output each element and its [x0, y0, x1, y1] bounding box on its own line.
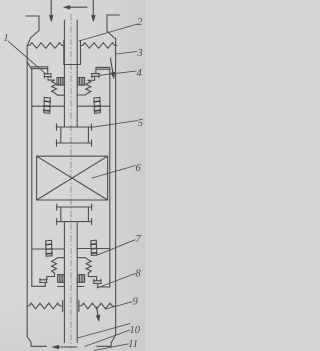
- upper-left link to pipe: [58, 94, 65, 96]
- lower-right link: [88, 273, 96, 280]
- upper-left slip pad: [44, 97, 51, 113]
- lower-left link: [47, 273, 55, 280]
- top hook left: [26, 16, 39, 45]
- lower-left link to pipe: [58, 257, 65, 259]
- lower-left pad on pipe: [58, 275, 65, 283]
- packer element box 6: [37, 156, 108, 200]
- bottom edge right: [97, 345, 111, 347]
- upper-right spring plates: [91, 74, 99, 78]
- upper-left spring plates: [44, 74, 51, 78]
- flow arrow right annulus pointing down: [110, 58, 114, 79]
- cylinder body lower: [61, 207, 89, 222]
- upper-right arm to pipe: [77, 105, 110, 107]
- top hook right: [107, 15, 119, 38]
- upper-left latch arm: [31, 67, 47, 74]
- central pipe wall left lower: [63, 222, 65, 343]
- lower-right latch spring: [85, 258, 91, 274]
- svg-text:7: 7: [136, 234, 142, 245]
- bottom spring left: [27, 303, 62, 309]
- pipe flange bottom right: [77, 286, 84, 288]
- upper-right pad on pipe: [78, 78, 85, 86]
- lower-left latch spring: [52, 258, 58, 274]
- packer cross diagonals: [37, 156, 108, 200]
- piston plate lower top: [56, 204, 92, 210]
- upper-left link: [48, 77, 55, 81]
- central pipe wall right lower: [76, 222, 78, 343]
- top suspension spring right: [81, 43, 117, 49]
- lower-right pad on pipe: [78, 275, 85, 283]
- leader 11: [94, 344, 129, 351]
- lower-right spring plates: [93, 279, 101, 283]
- sleeve wall right top: [80, 51, 82, 65]
- lower-left slip pad: [46, 240, 53, 256]
- piston plate lower bottom: [56, 219, 92, 225]
- svg-text:5: 5: [138, 118, 143, 129]
- flow arrow lower right annulus pointing down: [96, 307, 100, 321]
- bottom spring right: [79, 303, 114, 309]
- upper-right latch arm: [96, 67, 110, 73]
- svg-text:1: 1: [3, 33, 8, 44]
- lower-left spring plates: [40, 278, 48, 282]
- cylinder body 5: [61, 127, 89, 143]
- inner casing wall left: [31, 70, 33, 287]
- lower-right arm to pipe: [77, 248, 110, 250]
- bottom spring left end plate: [62, 301, 64, 312]
- lower-right latch arm: [98, 284, 110, 288]
- leader 9: [106, 302, 132, 309]
- leader 4: [100, 71, 137, 75]
- flow arrow top-right pointing down: [91, 0, 95, 22]
- pipe collar top: [64, 64, 81, 66]
- flow arrow top-left pointing down: [49, 0, 53, 22]
- svg-text:11: 11: [128, 339, 138, 350]
- leader 7: [97, 240, 135, 256]
- leader 2: [79, 24, 138, 41]
- svg-text:2: 2: [137, 17, 143, 28]
- svg-text:8: 8: [136, 268, 142, 279]
- flow arrow bottom pointing left: [52, 345, 77, 349]
- upper-left latch spring: [52, 80, 58, 95]
- bottom edge left: [31, 345, 47, 347]
- piston plate below cylinder: [56, 140, 92, 146]
- lower-left arm to pipe: [32, 248, 65, 250]
- svg-text:10: 10: [130, 325, 141, 336]
- pipe flange bottom left: [58, 286, 65, 288]
- lower-left latch arm: [32, 283, 46, 287]
- leader 1: [9, 42, 46, 74]
- outer casing wall right: [111, 38, 115, 346]
- central pipe wall left upper: [63, 20, 65, 127]
- central pipe wall right upper: [76, 20, 78, 127]
- flow arrow top-middle pointing left: [64, 5, 87, 9]
- upper-right link to pipe: [77, 94, 85, 96]
- bottom spring right end plate: [78, 301, 80, 312]
- leader 3: [116, 52, 137, 55]
- leader 10: [78, 324, 131, 347]
- piston plate upper: [56, 124, 92, 130]
- sleeve wall left top: [63, 51, 65, 65]
- lower-right slip pad: [91, 240, 97, 255]
- upper-right latch spring: [85, 80, 91, 95]
- top spring left end plate: [63, 41, 65, 51]
- upper-right link: [88, 76, 95, 80]
- upper-left pad on pipe: [57, 78, 64, 86]
- leader 5: [92, 121, 138, 128]
- svg-text:6: 6: [136, 163, 142, 174]
- svg-text:4: 4: [137, 68, 143, 79]
- svg-text:9: 9: [133, 296, 139, 307]
- leader 8: [97, 274, 135, 289]
- inner casing wall left taper: [27, 62, 32, 70]
- centerline of pipe: [70, 14, 72, 348]
- upper-right slip pad: [94, 97, 101, 113]
- svg-text:3: 3: [137, 48, 143, 59]
- inner casing wall right: [109, 69, 111, 287]
- leader 6: [92, 166, 135, 179]
- top suspension spring left: [28, 43, 64, 49]
- outer casing wall left: [27, 45, 31, 346]
- lower-right link to pipe: [77, 257, 85, 259]
- top spring right end plate: [80, 41, 82, 51]
- upper-left arm to pipe: [32, 105, 65, 107]
